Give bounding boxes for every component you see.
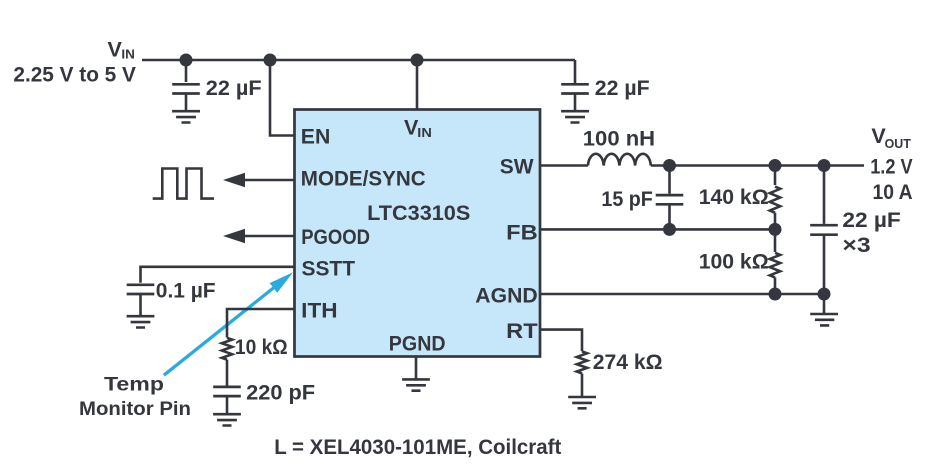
svg-text:PGOOD: PGOOD [301,225,370,249]
wire VIN pin drop [416,60,419,110]
svg-text:1.2 V: 1.2 V [870,154,913,178]
wire VIN rail drop to input cap C1 [185,60,188,82]
svg-text:22 µF: 22 µF [595,76,650,100]
wire ITH [227,309,294,338]
svg-text:22 µF: 22 µF [842,208,900,232]
wire PGOOD [240,235,294,238]
wire C4 bottom [226,396,229,414]
svg-text:EN: EN [301,125,331,149]
node dot SW-C6 [818,159,831,172]
callout arrow temp monitor [164,272,293,375]
svg-text:FB: FB [506,221,538,245]
capacitor C2 22uF plates [561,84,589,93]
wire RT [540,330,582,352]
svg-text:SSTT: SSTT [302,257,356,281]
svg-text:10 kΩ: 10 kΩ [235,335,288,359]
wire SW output node [651,164,864,167]
wire C3 bottom [139,294,142,316]
capacitor C5 15pF plates [656,195,684,204]
svg-text:RT: RT [506,319,538,343]
wire PGND [415,357,418,379]
ground under C4 [213,414,241,425]
op IC U1 LTC3310S body [295,110,541,357]
svg-text:×3: ×3 [842,233,870,257]
node dot SW-C5 [663,159,676,172]
wire SW node to R3 [774,166,777,186]
svg-text:LTC3310S: LTC3310S [367,201,470,225]
svg-text:OUT: OUT [885,136,911,151]
svg-text:10 A: 10 A [873,180,913,204]
svg-text:SW: SW [500,154,534,178]
svg-text:IN: IN [121,47,134,62]
svg-text:100 nH: 100 nH [583,127,655,151]
node dot SW-R3 [769,159,782,172]
svg-text:IN: IN [417,125,432,140]
wire C6 to AGND [823,235,826,294]
svg-text:Temp: Temp [104,374,164,395]
wire R1 to C4 [226,360,229,386]
svg-text:274 kΩ: 274 kΩ [593,350,663,374]
ground output [810,314,838,325]
node dot FB-R3 [769,223,782,236]
ground under PGND [402,379,430,390]
ground under C1 [172,111,200,122]
svg-text:220 pF: 220 pF [246,380,315,404]
wire FB to R4 [774,229,777,252]
node dot rail-EN [264,54,277,67]
svg-text:V: V [108,37,123,61]
inductor L1 100nH [588,154,651,166]
wire C5 to FB [668,204,671,229]
wire C1 bottom [185,94,188,111]
wire MODE/SYNC [240,179,294,182]
wire VIN rail [142,59,575,62]
wire AGND to ground [823,294,826,313]
svg-text:22 µF: 22 µF [206,76,262,100]
svg-text:L = XEL4030-101ME, Coilcraft: L = XEL4030-101ME, Coilcraft [274,435,561,459]
svg-text:15 pF: 15 pF [601,187,652,211]
wire R4 to AGND [774,277,777,294]
svg-text:ITH: ITH [301,299,337,323]
node dot AGND-R4 [769,288,782,301]
wire AGND [540,293,824,296]
wire node to C6 22uF [823,166,826,224]
ground under C2 [561,111,589,122]
wire node to C5 15pF [668,166,671,194]
resistor R2 274k zigzag [577,352,587,374]
wire R2 to ground [581,374,584,397]
arrowhead MODE/SYNC [223,173,245,187]
resistor R3 140k zigzag [770,187,780,213]
capacitor C1 22uF plates [172,84,200,93]
capacitor C4 220pF plates [213,387,241,396]
wire FB [540,228,775,231]
node dot rail-C1 [180,54,193,67]
ground under R2 [568,397,596,408]
svg-text:Monitor Pin: Monitor Pin [79,399,191,420]
capacitor C6 22uF x3 plates [810,225,838,235]
node dot AGND-C6 [818,288,831,301]
wire R3 to FB [774,213,777,230]
wire SSTT [141,267,295,283]
svg-text:2.25 V to 5 V: 2.25 V to 5 V [13,62,136,86]
svg-text:AGND: AGND [475,283,537,307]
resistor R4 100k zigzag [770,253,780,278]
node dot FB-C5 [663,223,676,236]
wire SW to inductor [540,164,588,167]
svg-text:140 kΩ: 140 kΩ [699,185,769,209]
arrowhead PGOOD [223,229,245,243]
capacitor C3 0.1uF plates [127,285,155,294]
resistor R1 10k zigzag [222,338,232,360]
wire rail to C2 [574,60,577,83]
square wave clock symbol [153,169,214,199]
svg-text:100 kΩ: 100 kΩ [699,250,769,274]
ground under C3 [127,316,155,327]
wire EN drop [270,60,294,136]
wire C2 bottom [574,94,577,111]
svg-text:PGND: PGND [389,331,446,355]
svg-text:0.1 µF: 0.1 µF [156,279,216,303]
node dot rail-VIN pin [411,54,424,67]
svg-text:MODE/SYNC: MODE/SYNC [301,167,426,191]
